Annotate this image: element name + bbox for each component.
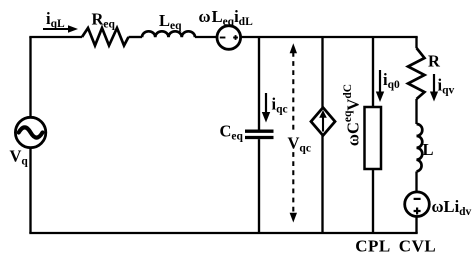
wire top-left segment [29, 36, 82, 38]
dashed voltage arrow Vqc double-headed [290, 43, 297, 222]
wire capacitor branch upper [258, 37, 260, 130]
polarity marks U1 minus [220, 37, 226, 39]
resistor R zigzag vertical [408, 48, 425, 99]
wire bottom [29, 232, 417, 234]
wire left side upper [29, 37, 31, 118]
wire CPL branch upper [372, 37, 374, 107]
CPL load rectangle [365, 107, 382, 169]
wire CPL branch lower [372, 169, 374, 233]
wire between R and L [415, 99, 417, 124]
wire left side lower [29, 148, 31, 234]
svg-text:iqc: iqc [272, 95, 288, 116]
svg-text:iqL: iqL [46, 9, 65, 30]
svg-text:Req: Req [92, 10, 116, 31]
svg-text:Ceq: Ceq [220, 122, 244, 143]
svg-text:iq0: iq0 [383, 70, 400, 91]
wire top-right from U1 to CVL corner [241, 36, 418, 38]
current arrow iqL [43, 25, 78, 33]
current arrow iq0 [376, 70, 384, 102]
svg-text:Leq: Leq [159, 11, 182, 32]
white backing for Vqc label [287, 132, 301, 151]
svg-text:Vqc: Vqc [288, 133, 311, 154]
svg-text:CVL: CVL [399, 237, 436, 256]
wire diamond branch lower [321, 136, 323, 234]
current arrow iqc [262, 93, 270, 123]
resistor Req zigzag [82, 28, 129, 46]
wire diamond branch upper [321, 37, 323, 108]
dependent voltage source U1 circle [217, 26, 241, 50]
svg-text:ωCeqVdC: ωCeqVdC [342, 84, 362, 146]
polarity marks CVL plus [414, 208, 421, 215]
source Vq circle [15, 117, 45, 147]
wire capacitor branch lower [258, 139, 260, 233]
svg-text:CPL: CPL [355, 237, 391, 256]
wire between Leq and source U1 [195, 36, 217, 38]
svg-text:ωLidv: ωLidv [432, 197, 472, 218]
polarity marks CVL minus [414, 198, 421, 200]
sine wave inside Vq [19, 127, 43, 137]
inductor Leq (4 humps) [142, 31, 195, 37]
arrow inside diamond source [319, 110, 327, 132]
svg-text:Vq: Vq [10, 147, 29, 168]
svg-text:R: R [428, 52, 441, 71]
wire CVL branch top [415, 37, 417, 48]
wire between Req and Leq [129, 36, 143, 38]
wire between L and source [415, 172, 417, 193]
capacitor Ceq plates [245, 130, 274, 133]
svg-text:iqv: iqv [438, 76, 455, 97]
polarity marks U1 plus [233, 35, 238, 40]
dependent voltage source CVL circle [405, 192, 430, 217]
dependent current source diamond [311, 108, 335, 136]
svg-text:L: L [423, 140, 434, 159]
wire CVL branch bottom [415, 216, 417, 233]
svg-text:ωLeqidL: ωLeqidL [199, 7, 254, 28]
current arrow iqv [430, 74, 438, 102]
inductor L (4 arcs) [417, 124, 423, 172]
